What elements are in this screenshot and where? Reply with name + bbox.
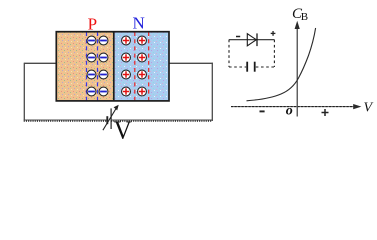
inset: dashed bottom left lead — [229, 66, 246, 68]
junction line — [113, 32, 115, 101]
acceptor ions: circled minus column 1 — [87, 36, 96, 96]
inset: diode D triangle — [247, 34, 256, 46]
wire: left horizontal from body to left branch — [24, 62, 56, 64]
battery B1 (variable source) — [103, 105, 119, 130]
N region fill — [114, 32, 169, 101]
depletion boundary dashed red line 2 — [148, 32, 150, 101]
inset: diode cathode bar — [256, 33, 258, 46]
depletion boundary dashed blue line 2 — [97, 32, 99, 101]
inset: plus polarity label — [271, 31, 276, 36]
P region fill — [56, 32, 114, 101]
inset: diode top wire — [229, 39, 275, 41]
graph: x axis — [231, 106, 358, 108]
graph: label minus region — [260, 110, 265, 112]
graph: label plus region — [322, 109, 329, 116]
svg-text:V: V — [114, 116, 132, 139]
donor ions: circled plus column 2 — [138, 36, 147, 96]
wire: right horizontal from body — [169, 62, 213, 64]
semiconductor body outline — [56, 32, 169, 101]
wire: left vertical branch — [23, 63, 25, 121]
inset: minus polarity label — [236, 36, 240, 38]
wire: bottom left segment to battery — [24, 120, 107, 121]
graph: y axis — [296, 25, 298, 117]
svg-text:P: P — [88, 15, 97, 34]
depletion boundary dashed blue line 1 — [86, 32, 88, 101]
graph: x axis arrowhead — [353, 104, 361, 109]
svg-text:N: N — [133, 13, 145, 32]
inset: dashed bottom right lead — [256, 66, 275, 68]
svg-text:B: B — [301, 11, 308, 23]
donor ions: circled plus column 1 — [122, 36, 131, 96]
svg-text:o: o — [286, 104, 293, 119]
depletion boundary dashed red line 1 — [134, 32, 136, 101]
svg-text:V: V — [364, 101, 374, 116]
inset: dashed right side of capacitance branch — [273, 40, 275, 67]
inset: junction capacitance C plates — [247, 62, 255, 72]
graph: y axis arrowhead — [295, 21, 300, 29]
graph: CB vs V curve — [247, 28, 316, 101]
wire: bottom right segment from battery — [111, 120, 212, 121]
inset: dashed left side of capacitance branch — [228, 40, 230, 67]
wire: right vertical branch — [211, 63, 213, 121]
acceptor ions: circled minus column 2 — [99, 36, 108, 96]
graph: label CB — [292, 6, 308, 23]
